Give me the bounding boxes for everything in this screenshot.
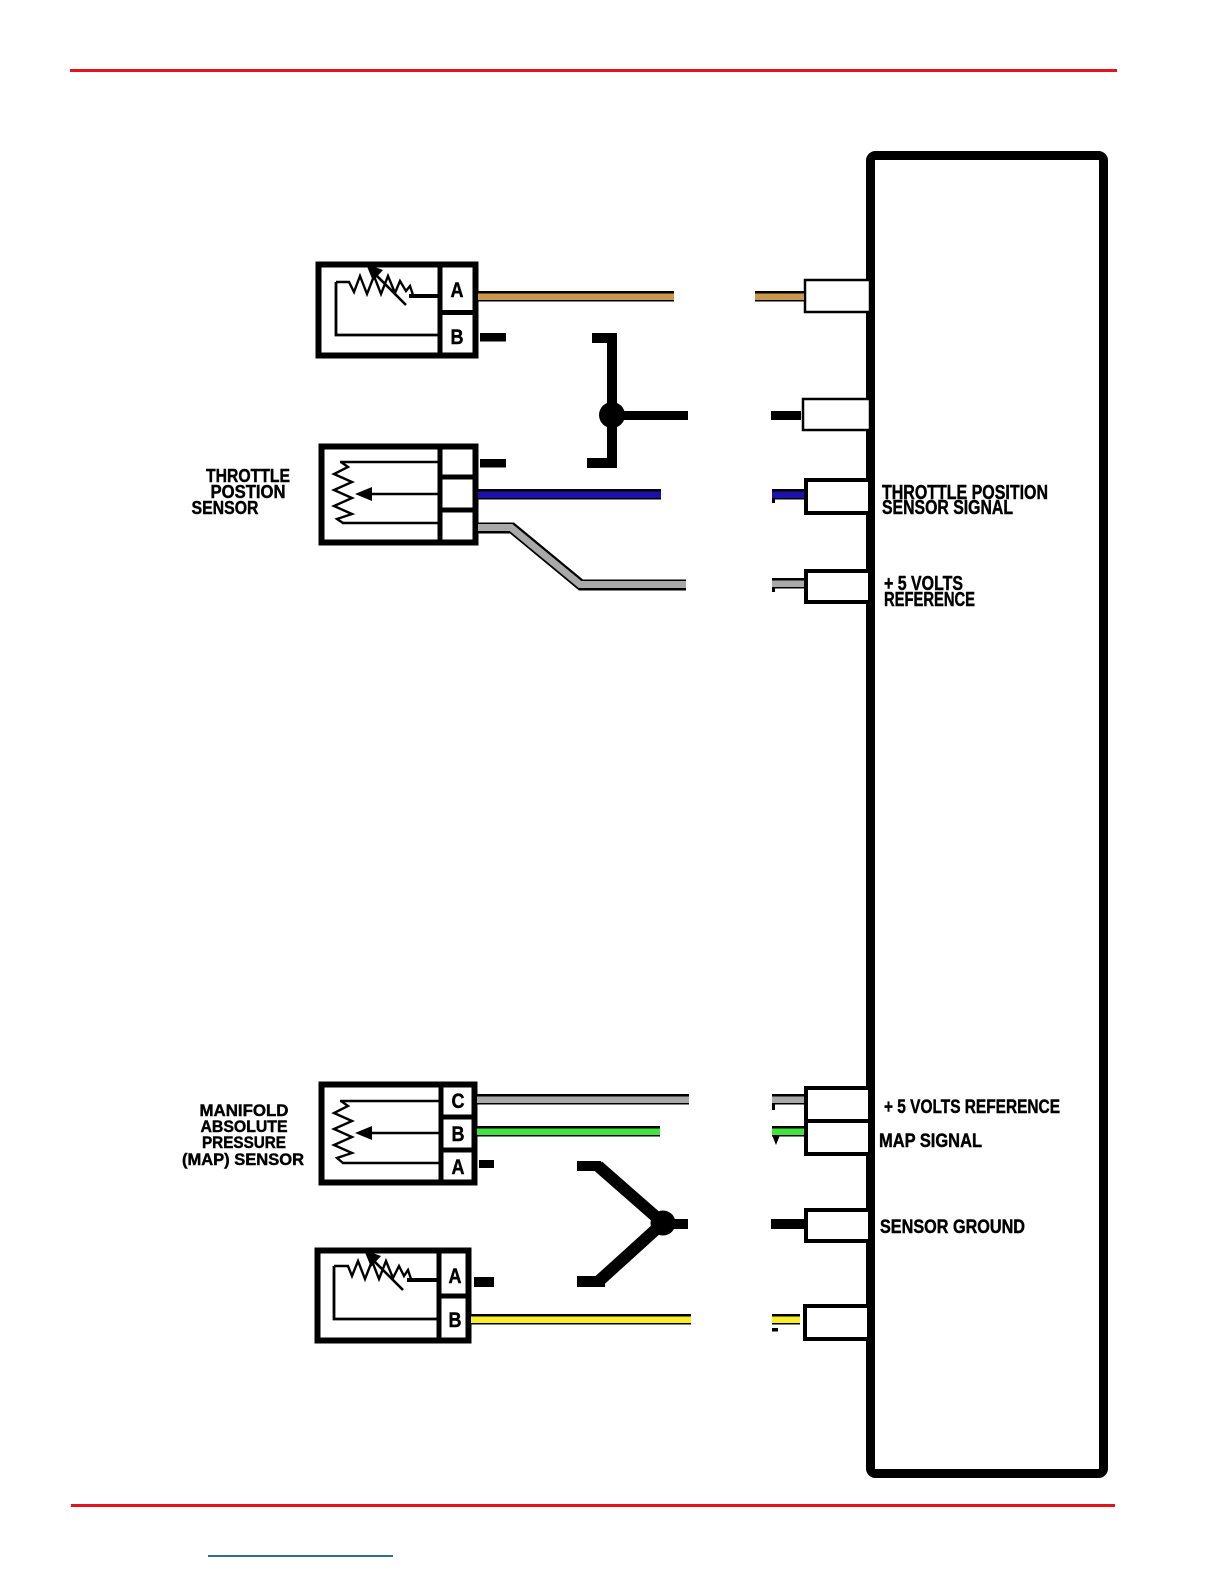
pot loop wire [336, 282, 440, 335]
connector pin C2 (ground) [803, 399, 870, 430]
wire blue TPS signal (left segment) [478, 489, 661, 500]
svg-text:MAP SIGNAL: MAP SIGNAL [879, 1131, 982, 1152]
svg-text:PRESSURE: PRESSURE [202, 1134, 286, 1152]
wire tan (right segment) [755, 291, 804, 302]
svg-text:B: B [452, 1123, 465, 1146]
wiper arrow [366, 1132, 441, 1135]
svg-text:C: C [452, 1090, 465, 1113]
junction node [599, 402, 625, 428]
bottom rule [71, 1504, 1115, 1507]
label THROTTLE POSITION SENSOR SIGNAL [882, 482, 1048, 519]
sensor RT2 (bottom pot) [318, 1248, 472, 1343]
wire gray +5V (right segment) [772, 578, 804, 592]
footer link underline [208, 1555, 393, 1557]
label THROTTLE POSTION SENSOR [192, 466, 291, 518]
wire yellow RT2 B (left segment) [471, 1314, 691, 1325]
wire green MAP B (left segment) [477, 1126, 660, 1137]
svg-text:B: B [449, 1309, 462, 1332]
wire stub MAP pin A [479, 1160, 494, 1168]
wire tan A->ECM (left segment) [478, 291, 674, 302]
pot resistor zigzag [334, 1261, 411, 1279]
ground bus V bracket [577, 1161, 688, 1287]
svg-text:A: A [451, 279, 464, 302]
wire stub RT2 pin A [474, 1277, 494, 1287]
label +5 VOLTS REFERENCE [884, 573, 975, 611]
connector pin C6 (green MAP signal) [806, 1121, 870, 1154]
top rule [70, 69, 1117, 72]
pot loop wire [334, 1266, 439, 1319]
ground bus bracket [587, 333, 688, 468]
vertical zigzag resistor [334, 462, 352, 523]
connector pin C7 (sensor ground) [806, 1210, 870, 1241]
wire stub sensor RT1 pin B [480, 333, 506, 342]
svg-text:SENSOR: SENSOR [192, 498, 259, 518]
wire gray +5V (left segment, angled) [478, 528, 686, 586]
wire yellow (right segment) [772, 1314, 800, 1332]
pot resistor zigzag [336, 276, 413, 295]
wire stub ground->C7 [771, 1219, 805, 1229]
connector pin C3 (blue TPS signal) [806, 480, 870, 513]
wire blue (right segment) [772, 489, 804, 503]
wire gray MAP C (left segment) [477, 1094, 689, 1105]
wire gray MAP (right segment) [772, 1094, 804, 1110]
connector pin C5 (gray MAP +5V) [806, 1088, 870, 1121]
connector pin C1 (tan) [805, 280, 870, 312]
svg-text:REFERENCE: REFERENCE [884, 589, 975, 611]
svg-text:SENSOR GROUND: SENSOR GROUND [880, 1217, 1025, 1238]
wire stub ground->C2 [771, 411, 801, 420]
junction node [651, 1211, 676, 1236]
connector pin C8 (yellow) [805, 1306, 869, 1339]
wire green MAP (right segment) [772, 1126, 804, 1145]
wire stub TPS pin1 [480, 459, 506, 468]
throttle position sensor TPS [322, 444, 479, 545]
wiper arrow [366, 493, 440, 496]
svg-text:(MAP) SENSOR: (MAP) SENSOR [182, 1151, 304, 1169]
wiper arrow [372, 1259, 403, 1290]
svg-text:+ 5 VOLTS REFERENCE: + 5 VOLTS REFERENCE [884, 1097, 1060, 1118]
MAP sensor [322, 1082, 478, 1185]
svg-text:A: A [449, 1265, 462, 1288]
label MANIFOLD ABSOLUTE PRESSURE (MAP) SENSOR [182, 1102, 304, 1169]
svg-text:B: B [451, 326, 464, 349]
svg-text:SENSOR SIGNAL: SENSOR SIGNAL [882, 497, 1013, 519]
svg-text:A: A [452, 1156, 465, 1179]
ECM box U1 [871, 156, 1104, 1474]
wiper arrow [374, 273, 406, 305]
connector pin C4 (gray +5V) [806, 571, 870, 602]
sensor RT1 (unnamed TPS-like pot, top) [319, 262, 479, 358]
vertical zigzag resistor [334, 1101, 352, 1163]
